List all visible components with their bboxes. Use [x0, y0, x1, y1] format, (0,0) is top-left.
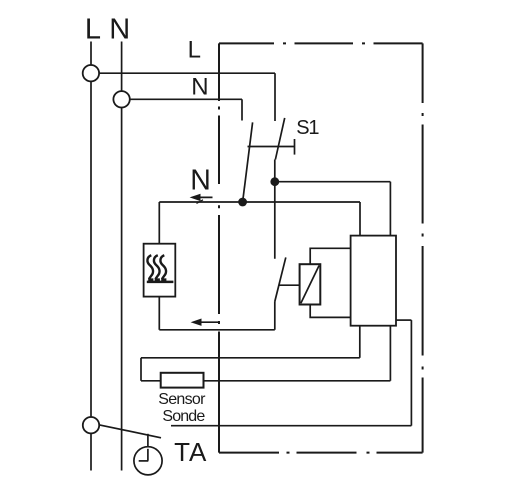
terminal circle L: [83, 65, 99, 81]
wire N down to S1 left contact: [241, 99, 243, 120]
relay coil K1 box: [300, 264, 321, 304]
wire switched-L horizontal: [275, 181, 391, 183]
wire output down right side: [410, 320, 412, 426]
heater squiggle 3: [160, 255, 166, 279]
wire relay contact lower lead: [274, 302, 276, 330]
wire L horizontal into S1: [99, 72, 275, 74]
relay contact K1 blade: [275, 257, 286, 301]
wire TA clock link: [147, 434, 149, 447]
wire sensor lead left: [141, 380, 161, 382]
wire TA feed horizontal: [171, 425, 411, 427]
wire N node horizontal: [159, 201, 360, 203]
wire sensor lead right: [204, 380, 391, 382]
terminal circle TA: [83, 417, 99, 433]
timer clock TA symbol: [134, 447, 162, 475]
switch S1 left blade: [243, 122, 253, 199]
wire coil bottom lead: [310, 305, 350, 318]
wire L vertical below terminal: [90, 81, 92, 417]
wire L down to S1 right contact: [274, 73, 276, 121]
wire sensor loop top horizontal: [141, 357, 360, 359]
wire sensor loop pin B up: [389, 326, 391, 381]
wire sensor loop left leg: [140, 358, 142, 381]
switch S1 link tick: [294, 139, 296, 155]
enclosure border top edge (dash-dot): [219, 42, 423, 44]
heater squiggle 2: [154, 255, 160, 279]
svg-text:S1: S1: [296, 117, 319, 139]
relay coil diagonal: [301, 266, 319, 304]
svg-text:L: L: [85, 14, 101, 46]
sensor RS box: [161, 373, 204, 388]
wire below TA terminal: [90, 433, 92, 470]
arrow N direction upper: [190, 194, 213, 204]
wire S1 right pole to node: [274, 160, 276, 259]
heater squiggle 1: [147, 255, 153, 279]
svg-text:Sensor: Sensor: [158, 391, 206, 408]
svg-text:TA: TA: [174, 437, 207, 467]
relay actuator bar: [279, 284, 300, 286]
terminal circle N: [113, 91, 129, 107]
enclosure border right edge (dash-dot): [422, 43, 424, 452]
switch TA blade: [99, 425, 161, 438]
wire N node down into controller: [359, 202, 361, 236]
svg-text:N: N: [190, 164, 211, 196]
node N junction dot: [238, 198, 247, 207]
svg-text:Sonde: Sonde: [162, 408, 205, 425]
wire N drop to terminal: [121, 42, 123, 92]
wire controller right output: [396, 319, 411, 321]
clock hour hand: [139, 460, 149, 462]
wire N horizontal into S1: [130, 98, 242, 100]
wire coil top lead: [310, 248, 350, 264]
heater base line: [147, 281, 174, 284]
arrow N direction lower: [191, 319, 220, 326]
switch S1 right blade: [275, 118, 284, 160]
clock minute hand: [147, 449, 149, 461]
heater element E1 box: [144, 244, 176, 297]
svg-text:L: L: [188, 37, 201, 64]
wire switched-L down into controller: [389, 182, 391, 236]
wire L drop to terminal: [90, 42, 92, 66]
switch S1 link bar: [248, 146, 295, 148]
wire N node down to heater: [158, 202, 160, 244]
wire N vertical below terminal: [121, 108, 123, 471]
enclosure border bottom edge (dash-dot): [219, 452, 423, 454]
svg-text:N: N: [109, 14, 130, 46]
controller unit U1 box: [351, 236, 396, 326]
node switched-L junction dot: [270, 177, 279, 186]
wire heater return horizontal: [159, 329, 274, 331]
svg-text:N: N: [191, 73, 208, 100]
wire sensor loop pin A down: [359, 326, 361, 358]
wire heater bottom lead: [158, 297, 160, 330]
enclosure border left edge (dash-dot): [218, 43, 220, 452]
